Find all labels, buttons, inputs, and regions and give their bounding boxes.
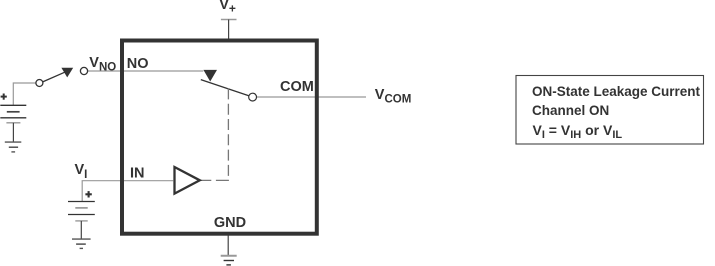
- svg-text:NO: NO: [127, 56, 149, 72]
- svg-text:Channel ON: Channel ON: [532, 103, 609, 118]
- svg-text:IN: IN: [130, 165, 145, 181]
- svg-text:GND: GND: [214, 215, 246, 231]
- svg-text:ON-State Leakage Current: ON-State Leakage Current: [532, 84, 701, 99]
- svg-text:COM: COM: [280, 79, 314, 95]
